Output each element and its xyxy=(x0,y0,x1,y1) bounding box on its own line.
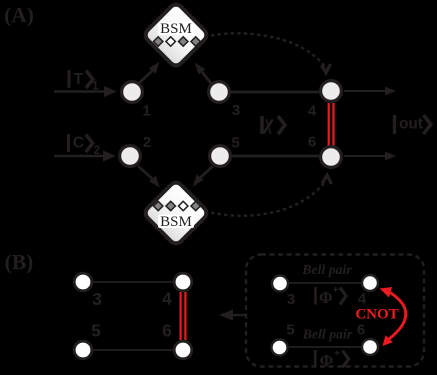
svg-text:2: 2 xyxy=(143,134,151,151)
box node 6 xyxy=(362,339,378,355)
wire: node5 to BSM2 with arrowhead xyxy=(193,166,213,186)
wire: box 5-6 xyxy=(289,346,361,348)
node label |T>1 xyxy=(69,70,99,93)
svg-text:T: T xyxy=(74,71,84,88)
BSM1 outcome diamonds: filled open filled filled xyxy=(153,37,200,46)
dashed curve BSM2 to node6 xyxy=(211,181,326,216)
wire: node3 to BSM1 with arrowhead xyxy=(195,63,212,85)
state label |Phi+> (bottom) xyxy=(315,348,348,371)
node label |out> xyxy=(395,115,431,134)
svg-text:3: 3 xyxy=(92,289,102,309)
svg-text:4: 4 xyxy=(162,289,172,309)
svg-text:Φ: Φ xyxy=(320,351,334,370)
svg-text:+: + xyxy=(333,284,339,296)
wire: node3 to node4 xyxy=(228,91,322,94)
svg-text:CNOT: CNOT xyxy=(355,307,398,323)
wire: output arrow from node6 xyxy=(344,152,396,161)
BSM2 outcome diamonds: filled filled open filled xyxy=(153,201,200,210)
wire: B-left 5-6 xyxy=(92,349,174,351)
svg-text:BSM: BSM xyxy=(160,214,192,230)
svg-text:BSM: BSM xyxy=(160,21,192,37)
node 4 xyxy=(321,81,342,102)
wire: B-left 3-4 xyxy=(92,281,174,283)
svg-text:(A): (A) xyxy=(4,3,34,27)
box node 4 xyxy=(362,275,378,291)
wire: output arrow from node4 xyxy=(344,87,396,96)
svg-text:6: 6 xyxy=(162,321,172,341)
BSM box 2 (bottom) xyxy=(143,180,209,246)
svg-text:3: 3 xyxy=(287,291,295,308)
box node 3 xyxy=(272,276,288,292)
svg-text:5: 5 xyxy=(286,322,294,339)
svg-text:1: 1 xyxy=(142,103,150,120)
B-left node 6 xyxy=(174,341,192,359)
wire: node1 to BSM1 with arrowhead xyxy=(139,62,160,84)
box node 5 xyxy=(272,340,288,356)
svg-text:C: C xyxy=(73,135,84,152)
wire: node5 to node6 xyxy=(229,155,322,158)
svg-text:6: 6 xyxy=(308,134,316,151)
svg-text:+: + xyxy=(334,348,340,360)
wire: input arrow for |C>2 xyxy=(54,151,116,162)
node label |C>2 xyxy=(69,134,101,157)
arrowhead of dashed curve (up) xyxy=(322,175,332,184)
svg-text:out: out xyxy=(399,116,423,133)
svg-text:5: 5 xyxy=(231,135,239,152)
BSM box 1 (top) xyxy=(143,2,209,68)
wire: box 3-4 xyxy=(289,282,361,284)
svg-text:2: 2 xyxy=(94,145,100,157)
svg-text:3: 3 xyxy=(232,102,240,119)
svg-text:6: 6 xyxy=(357,322,365,339)
red double link 4-6 (part A) xyxy=(329,103,334,146)
node label |chi> xyxy=(261,112,285,134)
wire: arrow from dashed box to B-left xyxy=(219,310,246,321)
dashed rounded box (Bell pair preparation) xyxy=(246,255,424,367)
wire: input arrow for |T>1 xyxy=(54,86,117,97)
arrowhead of dashed curve (down) xyxy=(322,64,331,73)
svg-text:5: 5 xyxy=(91,321,101,341)
svg-text:Bell pair: Bell pair xyxy=(301,262,352,277)
state label |Phi+> (top) xyxy=(316,284,347,307)
node 1 xyxy=(122,82,143,103)
node 2 xyxy=(120,146,141,167)
svg-text:4: 4 xyxy=(358,291,367,308)
svg-text:Φ: Φ xyxy=(319,288,333,307)
node 3 xyxy=(209,82,230,103)
B-left node 3 xyxy=(74,273,92,291)
node 6 xyxy=(321,147,342,168)
svg-text:1: 1 xyxy=(92,81,99,93)
node 5 xyxy=(210,146,231,167)
CNOT red curved double arrow xyxy=(380,287,406,346)
B-left node 4 xyxy=(174,273,192,291)
red double link 4-6 (part B left) xyxy=(181,292,186,340)
dashed curve BSM1 to node4 xyxy=(211,33,325,66)
svg-text:(B): (B) xyxy=(5,250,34,274)
svg-text:4: 4 xyxy=(308,103,317,120)
B-left node 5 xyxy=(74,341,92,359)
wire: node2 to BSM2 with arrowhead xyxy=(138,166,160,188)
svg-text:Bell pair: Bell pair xyxy=(302,327,353,342)
